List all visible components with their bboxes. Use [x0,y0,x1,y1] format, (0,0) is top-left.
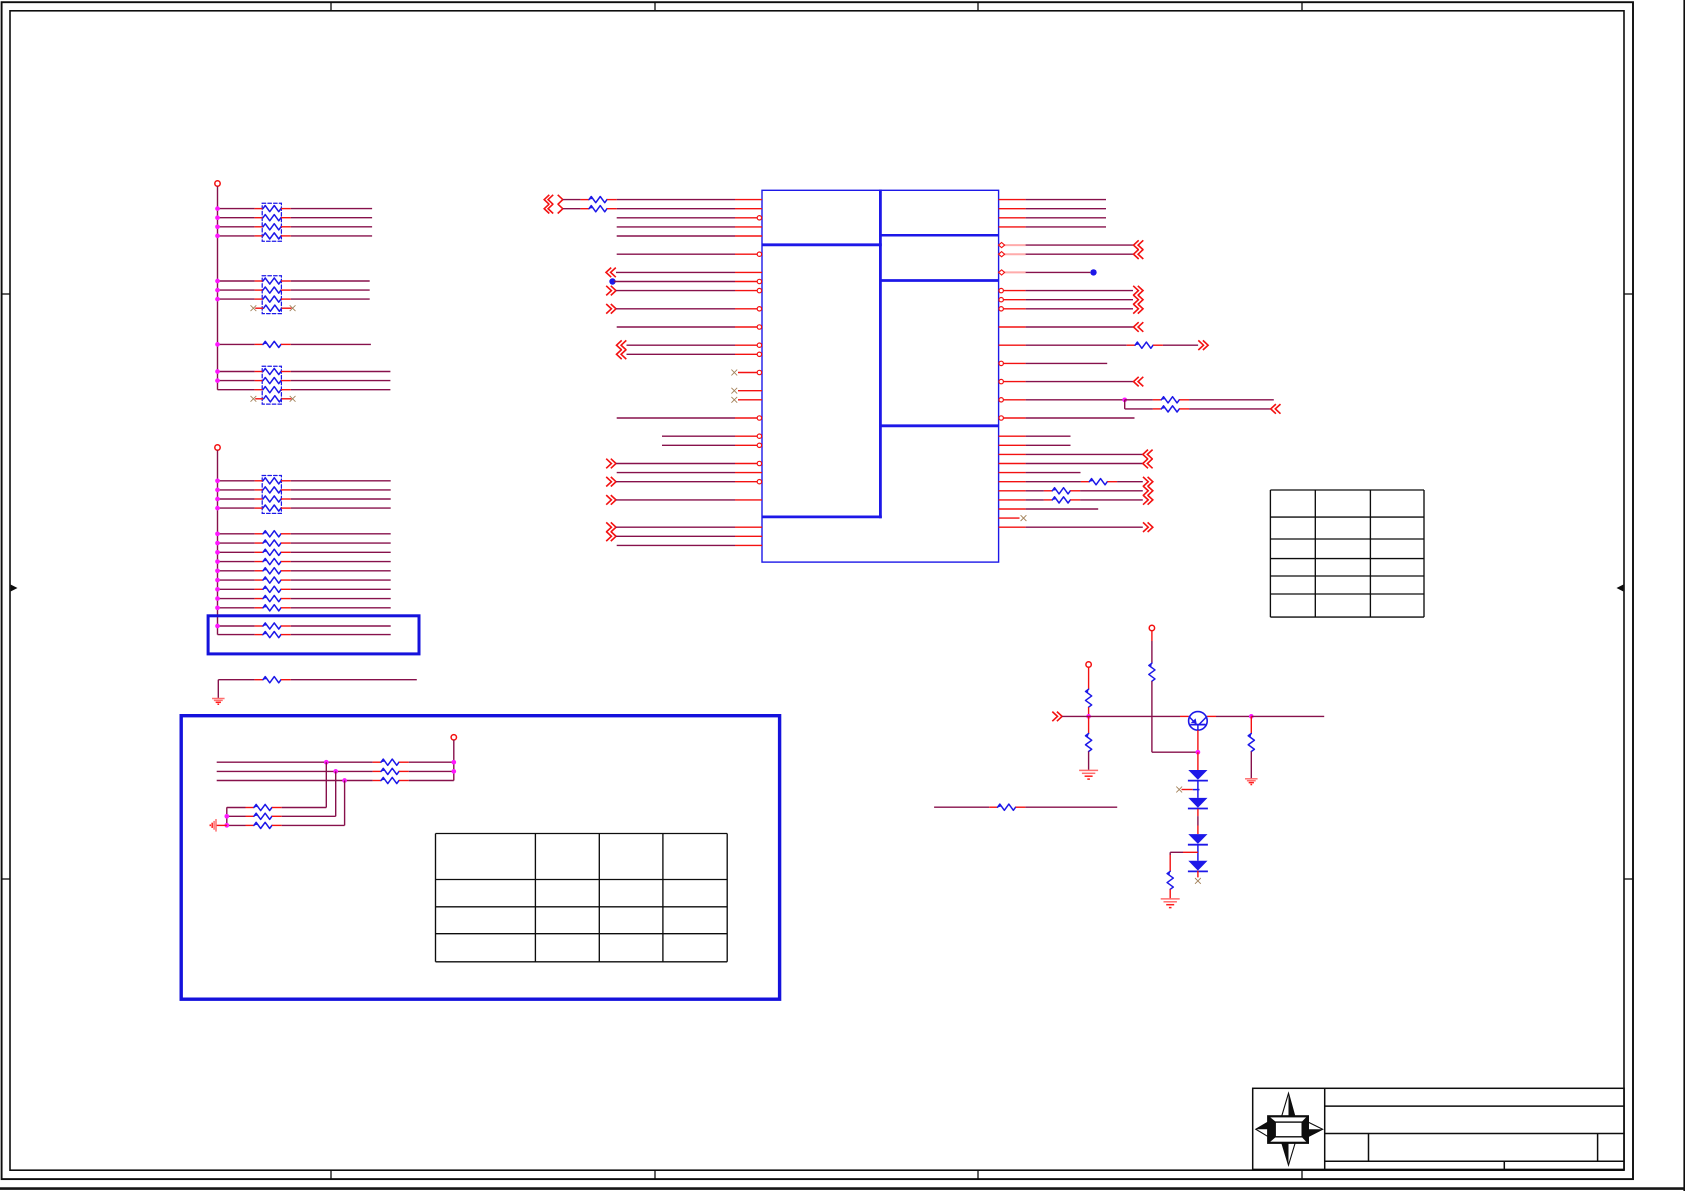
wire box row1 right [409,761,454,763]
off-page connector L n17 [617,350,622,360]
resistor pack RN2 box [262,276,281,314]
no-connect x RN3-4 right [290,396,296,402]
wire bus2 gB row3 left [218,551,255,553]
junction bus2 gA row4 [215,506,220,511]
wire U1 L n12 [616,308,735,310]
wire box row2 right [409,770,454,772]
off-page connector L n31 [611,477,616,487]
wire R31 stub c [1169,855,1171,871]
resistor R32 top lead [1250,716,1252,733]
wire U1 L n4 [617,235,735,237]
U1 pin R n33 [999,499,1026,501]
title block outline [1253,1088,1624,1169]
wire U1 R n10 [1026,290,1133,292]
U1 pin L n29 [735,463,762,465]
wire U1 R n22 b [1125,399,1153,401]
junction box low row2 [224,814,229,819]
U1 pin L n10 [735,290,762,292]
junction bus1 g3 row2 [215,378,220,383]
table T2 [436,834,728,962]
highlight box U3 [181,716,779,1000]
off-page connector R n33 [1148,495,1153,505]
no-connect x D4 [1195,878,1201,884]
wire bus1 single left [218,343,255,345]
port P4 [1149,625,1154,630]
title block row line 3 [1325,1160,1624,1162]
U1 pin L n24 [735,417,762,419]
resistor RN2-3 [255,298,263,300]
wire P5 b [1088,707,1090,716]
bottom zone tick 2 [654,1170,656,1179]
wire U1 L n29 [616,463,735,465]
wire U1 L n26 [662,435,735,437]
bottom zone tick 3 [977,1170,979,1179]
wire R31 stub red [1183,851,1198,853]
no-connect x RN3-4 left [251,396,257,402]
U1 pin L n22 stub [738,399,762,401]
resistor R9 [255,598,263,600]
off-page connector L n36 [611,522,616,532]
U1 pin R n3 [999,226,1026,228]
off-page connector L n29 [611,459,616,469]
wire bus2 gB row6 right [291,579,391,581]
off-page connector base [1057,712,1062,722]
wire box low row2 right [282,815,336,817]
U1 pin R n32 [999,490,1026,492]
no-connect x L n19 [731,370,737,376]
wire x stub D1 [1182,789,1193,791]
wire bus2 gB row2 right [291,542,391,544]
U1 pin R n31 [999,481,1026,483]
diode D1 [1188,770,1207,780]
junction bus1 g3 row1 [215,369,220,374]
wire box low row3 right [282,824,345,826]
wire bus2 gA row4 right [291,507,391,509]
resistor R3 [255,542,263,544]
junction box low row3 [224,823,229,828]
transistor Q1 [1189,712,1208,731]
resistor RN1-4 [255,235,263,237]
junction bus1 g2 row2 [215,288,220,293]
junction bus2 gA row3 [215,497,220,502]
resistor R19 [246,824,254,826]
wire R31 down [1169,889,1171,899]
resistor R31 [1167,871,1173,889]
left zone tick 1 [2,293,10,295]
wire U1 R n14 [1026,326,1134,328]
U1 pin R n2 [999,217,1026,219]
U1 pin R n29 [999,463,1026,465]
wire D4 stub [1197,871,1199,878]
junction box row2 drop [333,769,338,774]
wire Q1 left red [1180,715,1189,717]
wire net lone a [934,806,989,808]
wire U1 R n31 a [1026,481,1081,483]
ground GND1 [212,698,225,700]
U1 pin R n30 [999,472,1026,474]
wire U1 R n34 [1026,508,1099,510]
U1 pin L n16 [735,344,762,346]
U1 pin L n31 [735,481,762,483]
IC U1 divider left horizontal [762,516,882,519]
junction bus2 gA row1 [215,478,220,483]
off-page connector R n32 [1148,486,1153,496]
off-page connector R n23 [1271,404,1276,414]
wire bus2 gA row4 left [218,507,255,509]
U1 pin L n37 [735,535,762,537]
wire U1 L n9 [614,281,735,283]
resistor RN3-4 [255,398,263,400]
resistor RN4-4 [255,507,263,509]
wire gnd row left [218,679,254,681]
wire R31 stub a [1170,851,1183,853]
resistor RN3-2 [255,380,263,382]
junction bus2 gB row4 [215,559,220,564]
ground GND3 [1079,769,1098,771]
junction bus2 gB row8 [215,596,220,601]
wire U1 L n27 [662,444,735,446]
scan edge line bottom [0,1187,1685,1190]
U1 pin R n5 [999,244,1026,246]
wire bus2 gB row1 right [291,533,391,535]
wire bus2 box row1 left [218,625,255,627]
U1 pin L n12 [735,308,762,310]
wire box row2 left [217,770,373,772]
junction box row3 drop [342,778,347,783]
U1 pin R n1 [999,208,1026,210]
right center mark [1617,585,1624,592]
resistor pack RN1 box [262,203,281,241]
wire U1 R n36 [1026,526,1143,528]
wire R31 stub b [1169,852,1171,855]
top zone tick 2 [654,2,656,11]
wire U1 R n16 b [1163,344,1198,346]
wire Q1 emitter [1197,730,1199,752]
resistor R33 [989,806,997,808]
wire U1 R n29 [1026,463,1143,465]
wire bus2 gB row2 left [218,542,255,544]
wire bus2 gB row8 left [218,598,255,600]
junction bus2 gB row7 [215,587,220,592]
junction bus1 g2 row3 [215,297,220,302]
wire bus2 gA row1 right [291,480,391,482]
IC U1 divider right thin [880,234,998,237]
resistor R21 [581,208,589,210]
resistor pack RN3 box [262,366,281,404]
U1 pin L n38 [735,544,762,546]
wire bus1 g3 row3 left [218,389,255,391]
wire R32 down [1250,752,1252,779]
top zone tick 3 [977,2,979,11]
wire bus2 gB row8 right [291,598,391,600]
junction bus1 row4 [215,234,220,239]
wire bus2 gB row5 left [218,570,255,572]
wire U1 R n24 [1026,417,1135,419]
wire bus1 g2 row2 left [218,289,255,291]
U1 pin L n33 [735,499,762,501]
U1 pin R n28 [999,453,1026,455]
junction collector [1249,714,1254,719]
junction bus2 gB row6 [215,578,220,583]
wire bus2 gB row6 left [218,579,255,581]
wire gnd stub vertical [217,680,219,699]
wire U1 R n32 b [1080,490,1143,492]
off-page connector R n10 [1138,286,1143,296]
off-page connector R n14 [1134,322,1139,332]
junction n22 [1122,397,1127,402]
U1 pin L n6 [735,253,762,255]
U1 pin R n34 [999,508,1026,510]
wire gnd row right [291,679,417,681]
resistor RN2-2 [255,289,263,291]
wire box row3 right [409,780,454,782]
title block row line 2 [1325,1133,1624,1135]
diode D2 [1188,798,1207,808]
wire bus2 gB row7 right [291,588,391,590]
resistor R16 [373,780,381,782]
resistor R6 [255,570,263,572]
wire bus1 g2 row1 left [218,280,255,282]
wire U1 R n33 a [1026,499,1044,501]
wire U1 L n38 [617,544,735,546]
wire U1 L n24 [617,417,735,419]
wire U1 L n3 [617,226,735,228]
U1 pin R n35 stub [999,517,1020,519]
wire U1 L n2 [617,217,735,219]
wire bus1 single right [291,343,371,345]
wire bus1 g2 row3 right [291,298,370,300]
wire box drop3 [344,781,346,826]
off-page connector R n31 [1148,477,1153,487]
no-connect x L n22 [731,397,737,403]
wire U1 R n1 [1026,208,1106,210]
junction bus2 gB row2 [215,541,220,546]
U1 pin L n14 [735,326,762,328]
bottom zone tick 1 [330,1170,332,1179]
wire box drop1 [325,762,327,807]
resistor RN1-2 [255,217,263,219]
resistor pack RN4 box [262,476,281,514]
resistor R18 [246,815,254,817]
title block col b [1597,1134,1599,1162]
wire bus2 gA row3 left [218,498,255,500]
wire U1 R n12 [1026,308,1133,310]
U1 pin R n36 [999,526,1026,528]
diode D3 [1188,834,1207,844]
pin tick D1-D2 [1193,789,1200,791]
title block logo cell [1324,1088,1326,1169]
wire box low row3 left [227,824,246,826]
wire D2-D3 a [1197,809,1199,816]
off-page connector L n16 [617,340,622,350]
resistor R1 [255,343,263,345]
wire P3 vertical [453,740,455,781]
junction bus2 gB row5 [215,568,220,573]
wire net lone b [1025,806,1117,808]
wire box low row1 right [282,807,327,809]
wire bus1 row1 right [291,208,372,210]
wire D2-D3 c [1197,826,1199,835]
right zone tick 1 [1624,293,1633,295]
wire U1 L n33 [616,499,735,501]
wire bus1 vertical [217,186,219,390]
wire bus2 gB row4 left [218,561,255,563]
off-page connector R n36 [1148,522,1153,532]
U1 pin R n10 [999,290,1026,292]
off-page connector R n20 [1134,377,1139,387]
wire emitter-D1 [1197,752,1199,770]
U1 pin R n11 [999,299,1026,301]
wire D2-D3 b [1197,816,1199,825]
U1 pin R n27 [999,444,1026,446]
U1 pin R n18 [999,362,1026,364]
diode D4 [1188,861,1207,871]
off-page connector L n37 [611,532,616,542]
off-page connector R n5 [1134,240,1139,250]
wire D3-D4 [1197,844,1199,860]
wire bus2 gB row9 right [291,607,391,609]
ground GND2 [215,819,217,832]
resistor R28 [1149,663,1155,681]
U1 pin L n36 [735,526,762,528]
wire bus1 row3 left [218,226,255,228]
resistor R22 [1127,344,1135,346]
ground GND5 [1245,778,1258,780]
wire P5 a [1088,667,1090,689]
U1 pin L n2 [735,217,762,219]
resistor R7 [255,579,263,581]
IC U1 divider right a [880,279,998,282]
wire U1 R n22 a [1026,399,1125,401]
off-page connector R n11 [1138,295,1143,305]
resistor R4 [255,551,263,553]
wire U1 R n26 [1026,435,1071,437]
resistor R30 [1086,734,1092,752]
resistor R15 [373,770,381,772]
off-page connector R n16 [1203,340,1208,350]
U1 pin L n19 stub [738,372,762,374]
port P5 [1086,662,1091,667]
wire P4 a [1151,631,1153,641]
wire Q1 right red [1207,715,1216,717]
U1 pin L n26 [735,435,762,437]
no-ERC dot n9 [609,278,615,284]
junction bus1 g2 row1 [215,279,220,284]
off-page connector L n33 [611,495,616,505]
off-page connector R n29 [1143,459,1148,469]
junction bus1 row3 [215,224,220,229]
resistor R32 [1248,734,1254,752]
off-page connector in n1 [544,204,549,214]
scan edge line right [1683,0,1685,1191]
no-connect x D1 [1176,787,1182,793]
resistor RN2-4 [255,307,263,309]
wire n1 a [563,208,581,210]
junction bus2 gB row1 [215,531,220,536]
resistor R5 [255,561,263,563]
no-connect x RN2-4 right [290,305,296,311]
resistor RN1-1 [255,208,263,210]
wire U1 R n31 b [1117,481,1143,483]
wire U1 R n16 a [1026,344,1127,346]
resistor R14 [373,761,381,763]
junction box row1 drop [324,760,329,765]
no-connect x RN2-4 left [251,305,257,311]
wire n23 a [1125,408,1153,410]
U1 pin R n12 [999,308,1026,310]
wire U1 R n32 a [1026,490,1044,492]
wire U1 R n8 [1026,271,1091,273]
IC U1 divider right b [880,424,998,427]
resistor R17 [246,807,254,809]
wire bus1 g3 row2 right [291,380,391,382]
top zone tick 4 [1301,2,1303,11]
wire box low row1 left [227,807,246,809]
resistor R26 [1044,490,1052,492]
junction bus2 gB row3 [215,550,220,555]
wire bus2 box row2 left [218,634,255,636]
junction base [1086,714,1091,719]
junction bus2 gB row9 [215,605,220,610]
wire bus2 gB row5 right [291,570,391,572]
wire D1-D2 [1197,781,1199,798]
wire collector a [1216,715,1251,717]
U1 pin R n16 [999,344,1026,346]
port P1 [215,181,220,186]
junction bus1 row1 [215,206,220,211]
bottom zone tick 4 [1301,1170,1303,1179]
resistor R2 [255,533,263,535]
U1 pin R n24 [999,417,1026,419]
wire bus2 box row2 right [291,634,391,636]
wire bus2 box row1 right [291,625,391,627]
wire U1 L n30 [617,472,735,474]
wire n0 b [617,199,735,201]
resistor R11 [255,625,263,627]
wire U1 R n30 [1026,472,1081,474]
resistor R10 [255,607,263,609]
wire bus2 gB row4 right [291,561,391,563]
table T1 [1270,490,1424,617]
wire bus1 g3 row1 right [291,371,391,373]
title block col a [1368,1134,1370,1162]
off-page connector R n12 [1138,304,1143,314]
U1 pin L n4 [735,235,762,237]
junction box port row2 [451,769,456,774]
wire box gnd stub [216,824,227,826]
wire bus2 gA row1 left [218,480,255,482]
U1 pin L n30 [735,472,762,474]
wire P4 c [1152,751,1198,753]
wire U1 L n8 [616,271,735,273]
wire bus1 row2 left [218,217,255,219]
U1 pin L n3 [735,226,762,228]
junction box port row1 [451,760,456,765]
resistor RN1-3 [255,226,263,228]
U1 pin L n0 [735,199,762,201]
resistor RN3-3 [255,389,263,391]
wire U1 R n2 [1026,217,1106,219]
resistor RN4-2 [255,489,263,491]
off-page connector R n6 [1134,249,1139,259]
wire box drop2 [335,771,337,816]
wire bus2 gA row2 left [218,489,255,491]
wire bus1 row1 left [218,208,255,210]
wire bus1 row4 left [218,235,255,237]
resistor R12 [255,634,263,636]
wire U1 R n0 [1026,199,1106,201]
no-ERC dot n8R [1090,269,1096,275]
